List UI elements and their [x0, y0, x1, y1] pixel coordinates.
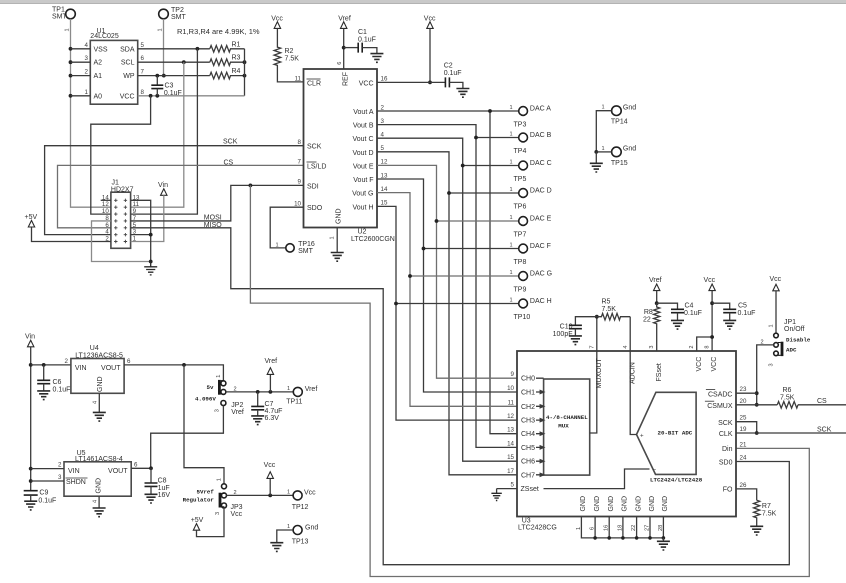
mux input stubs — [536, 378, 544, 476]
wire SCL row — [138, 60, 210, 64]
svg-text:24: 24 — [740, 455, 747, 462]
svg-text:GND: GND — [335, 208, 342, 224]
svg-text:Disable: Disable — [786, 337, 811, 344]
svg-text:2: 2 — [689, 345, 695, 348]
svg-text:R4: R4 — [232, 68, 241, 75]
svg-text:R3: R3 — [232, 55, 241, 62]
jumper JP2 Vref — [195, 375, 244, 416]
svg-text:Vout H: Vout H — [352, 204, 373, 211]
svg-text:Vcc: Vcc — [770, 276, 782, 283]
test point TP2 (SMT) — [157, 7, 186, 32]
power Vin (regulator section) — [25, 334, 35, 347]
svg-text:Regulator: Regulator — [183, 497, 215, 504]
svg-text:DAC H: DAC H — [530, 298, 552, 305]
net SCK (J1.4 to U2.SCK) — [45, 139, 304, 235]
wire MOSI branch to U3.Din — [250, 185, 809, 576]
svg-text:6: 6 — [134, 461, 138, 468]
svg-text:1: 1 — [64, 28, 70, 31]
svg-text:1: 1 — [157, 28, 163, 31]
svg-text:26: 26 — [740, 482, 747, 489]
test point TP5 DAC C — [510, 160, 552, 183]
svg-text:R8: R8 — [644, 309, 653, 316]
svg-text:DAC A: DAC A — [530, 106, 551, 113]
svg-text:6: 6 — [141, 55, 145, 62]
svg-text:C4: C4 — [685, 302, 694, 309]
svg-text:Vout G: Vout G — [352, 191, 373, 198]
wire MUXOUT internal — [590, 351, 597, 433]
svg-text:2: 2 — [58, 462, 62, 469]
net MISO (J1.5 to U3.SDO) — [131, 222, 790, 565]
svg-text:Vout E: Vout E — [353, 163, 374, 170]
svg-text:VOUT: VOUT — [108, 468, 128, 475]
test point TP9 DAC G — [510, 270, 553, 293]
IC U4 LT1236ACS8-5 — [71, 345, 124, 393]
net Vout H to TP10 and U3.CH3 — [377, 206, 519, 420]
svg-text:15: 15 — [381, 200, 388, 207]
svg-text:TP11: TP11 — [286, 398, 302, 405]
svg-text:WP: WP — [123, 73, 135, 80]
svg-text:CH1: CH1 — [521, 390, 535, 397]
svg-text:CH7: CH7 — [521, 472, 535, 479]
wire Vcc column to U2 VCC line — [428, 28, 432, 84]
svg-text:CS: CS — [817, 398, 827, 405]
svg-text:Vref: Vref — [231, 409, 244, 416]
svg-text:SDI: SDI — [307, 183, 319, 190]
svg-text:R5: R5 — [602, 299, 611, 306]
svg-text:SDA: SDA — [120, 46, 135, 53]
svg-text:0.1uF: 0.1uF — [444, 70, 462, 77]
wire Vcc to U3 VCC pins — [697, 291, 714, 351]
svg-text:Vin: Vin — [158, 182, 168, 189]
wire U5 VIN stub — [31, 462, 64, 469]
ground at J1 — [144, 262, 157, 275]
test point TP7 DAC E — [510, 215, 552, 238]
test point TP10 DAC H — [510, 298, 552, 321]
svg-text:11: 11 — [508, 399, 515, 406]
test point TP16 SMT — [270, 207, 315, 255]
svg-text:Vout B: Vout B — [353, 123, 374, 130]
svg-text:–: – — [653, 466, 657, 473]
wire U4 VIN row — [31, 358, 71, 367]
svg-text:TP5: TP5 — [514, 176, 527, 183]
ground at U2 GND — [331, 253, 344, 262]
svg-text:TP13: TP13 — [292, 539, 309, 546]
test point TP14 Gnd — [602, 105, 637, 126]
svg-text:R7: R7 — [762, 503, 771, 510]
svg-text:7.5K: 7.5K — [602, 306, 617, 313]
svg-text:CH5: CH5 — [521, 445, 535, 452]
svg-text:20-BIT ADC: 20-BIT ADC — [658, 430, 693, 437]
net Vout A to TP3 and U3.CH4 — [377, 109, 519, 434]
test point TP3 DAC A — [510, 105, 552, 128]
svg-text:C3: C3 — [165, 83, 174, 90]
svg-text:ZSset: ZSset — [521, 486, 539, 493]
jumper JP1 On/Off — [761, 291, 811, 367]
power +5V — [25, 214, 38, 227]
svg-text:SCK: SCK — [223, 139, 238, 146]
svg-text:LT1236ACS8-5: LT1236ACS8-5 — [75, 352, 123, 359]
resistor R5 7.5K — [597, 299, 630, 321]
svg-text:3: 3 — [215, 512, 221, 515]
svg-text:A1: A1 — [94, 73, 103, 80]
svg-text:SMT: SMT — [171, 14, 187, 21]
power Vcc above JP1 — [770, 276, 782, 291]
svg-text:1: 1 — [510, 187, 513, 193]
jumper JP3 Vcc — [183, 478, 243, 518]
IC U5 LT1461ACS8-4 — [64, 450, 131, 496]
svg-text:18: 18 — [617, 525, 623, 531]
net Vout B to TP4 and U3.CH5 — [377, 125, 519, 448]
svg-text:FO: FO — [723, 487, 733, 494]
svg-text:SCL: SCL — [121, 60, 135, 67]
ground at C5 — [723, 320, 736, 329]
resistor R8 22 — [643, 303, 660, 330]
ground at U4 — [93, 412, 106, 421]
resistor R3 — [210, 55, 247, 66]
svg-text:13: 13 — [507, 427, 514, 434]
power Vcc at JP3 — [264, 462, 276, 495]
svg-text:4: 4 — [381, 132, 385, 139]
svg-text:VIN: VIN — [68, 468, 80, 475]
svg-text:VIN: VIN — [75, 365, 87, 372]
power Vref at JP2 — [265, 358, 278, 392]
svg-text:GND: GND — [97, 376, 104, 392]
svg-text:CH3: CH3 — [521, 418, 535, 425]
capacitor C5 0.1uF — [712, 302, 755, 320]
svg-text:Vout D: Vout D — [352, 150, 373, 157]
wire TP14 to ground — [594, 111, 611, 154]
wire TP13 to ground — [277, 530, 293, 543]
svg-text:1: 1 — [768, 324, 774, 327]
resistor R7 7.5K — [754, 500, 777, 526]
power Vref above U2 — [338, 16, 351, 29]
svg-text:REF: REF — [343, 72, 350, 86]
connector J1 HD2X7 — [111, 180, 134, 249]
wire Vin column — [29, 347, 33, 491]
svg-text:C1: C1 — [358, 29, 367, 36]
svg-text:3: 3 — [214, 409, 220, 412]
svg-text:1: 1 — [330, 236, 336, 239]
svg-text:MUX: MUX — [558, 422, 569, 429]
svg-text:9: 9 — [298, 179, 302, 186]
wire +5V to JP3 pin 3 — [197, 508, 225, 537]
svg-text:1: 1 — [287, 489, 290, 495]
svg-text:U3: U3 — [522, 517, 531, 524]
node A0 junction — [69, 94, 73, 98]
adc block inside U3 — [637, 392, 703, 483]
ground at TP15 — [590, 152, 603, 172]
test point TP13 Gnd — [287, 524, 318, 546]
node A1 junction — [69, 74, 73, 78]
svg-text:GND: GND — [635, 496, 642, 512]
svg-text:17: 17 — [507, 468, 514, 475]
svg-text:VCC: VCC — [359, 80, 374, 87]
svg-text:TP1: TP1 — [52, 7, 65, 14]
svg-text:R1,R3,R4 are 4.99K, 1%: R1,R3,R4 are 4.99K, 1% — [177, 27, 260, 36]
svg-text:+5V: +5V — [25, 214, 38, 221]
svg-text:GND: GND — [622, 496, 629, 512]
ground at C1 — [370, 54, 383, 63]
wire U3 CSADC pin 23 — [736, 392, 757, 394]
svg-text:3: 3 — [769, 363, 775, 366]
wire ADCIN pin 4 column — [629, 317, 631, 351]
wire U3 FO pin 26 to R7 — [736, 489, 757, 500]
test point TP6 DAC D — [510, 187, 552, 210]
wire MUXOUT pin 7 to R5 — [595, 315, 599, 351]
svg-text:SMT: SMT — [52, 14, 68, 21]
svg-text:JP1: JP1 — [784, 319, 796, 326]
svg-text:5v: 5v — [207, 384, 214, 391]
svg-text:C7: C7 — [265, 401, 274, 408]
svg-text:5: 5 — [381, 145, 385, 152]
net CS to edge — [798, 398, 846, 405]
svg-text:1: 1 — [510, 132, 513, 138]
svg-text:FSset: FSset — [656, 363, 663, 381]
resistor R2 7.5K — [274, 28, 303, 82]
net CS (J1.6 to U2.LS/LD) — [58, 159, 304, 227]
svg-text:TP4: TP4 — [514, 148, 527, 155]
capacitor C2 0.1uF — [444, 63, 463, 89]
svg-text:3: 3 — [85, 55, 89, 62]
wire U3 CSMUX pin 20 to R6 — [736, 404, 777, 406]
ground at C10 — [569, 336, 582, 345]
ground at ZSset — [491, 489, 501, 501]
svg-text:Gnd: Gnd — [305, 524, 318, 531]
svg-text:6: 6 — [590, 527, 596, 530]
svg-text:3: 3 — [649, 345, 655, 348]
svg-text:14: 14 — [507, 440, 514, 447]
svg-text:C6: C6 — [53, 379, 62, 386]
svg-text:Vcc: Vcc — [231, 511, 243, 518]
svg-text:TP10: TP10 — [514, 314, 531, 321]
svg-text:CH6: CH6 — [521, 459, 535, 466]
svg-text:9: 9 — [511, 371, 515, 378]
capacitor C7 4.7uF 6.3V — [251, 392, 282, 422]
svg-text:2: 2 — [381, 104, 385, 111]
svg-text:GND: GND — [580, 496, 587, 512]
svg-text:Din: Din — [722, 446, 733, 453]
IC U2 LTC2600CGN — [294, 62, 395, 243]
svg-text:R1: R1 — [232, 41, 241, 48]
svg-text:23: 23 — [740, 386, 747, 393]
svg-text:DAC G: DAC G — [530, 271, 552, 278]
svg-text:22: 22 — [631, 525, 637, 531]
svg-text:TP7: TP7 — [514, 231, 527, 238]
svg-text:6: 6 — [337, 62, 343, 65]
IC U3 LTC2428CG — [507, 345, 747, 531]
ground at C8 — [145, 494, 158, 503]
svg-text:4: 4 — [85, 42, 89, 49]
wire U2 GND pin — [336, 228, 338, 253]
svg-text:0.1uF: 0.1uF — [53, 387, 71, 394]
svg-text:7: 7 — [141, 69, 145, 76]
wire FSset pin 3 column — [656, 330, 658, 351]
svg-text:CH4: CH4 — [521, 431, 535, 438]
wire ZSset external stub — [497, 488, 517, 490]
svg-text:VCC: VCC — [696, 357, 703, 372]
ground at U3 GND bus — [657, 538, 670, 550]
svg-text:25: 25 — [740, 415, 747, 422]
svg-text:Vref: Vref — [338, 16, 351, 23]
svg-text:4-/8-CHANNEL: 4-/8-CHANNEL — [546, 414, 588, 421]
svg-text:1: 1 — [510, 298, 513, 304]
capacitor C10 100pF — [553, 317, 597, 338]
svg-text:4: 4 — [623, 345, 629, 348]
svg-text:2: 2 — [65, 358, 69, 365]
test point TP12 Vcc — [287, 489, 316, 511]
ground at TP13 — [270, 543, 283, 552]
svg-text:12: 12 — [381, 159, 388, 166]
wire U4 VOUT row to JP2 pin 1 — [124, 358, 223, 381]
svg-text:CH2: CH2 — [521, 404, 535, 411]
svg-text:ADC: ADC — [786, 346, 797, 353]
svg-text:19: 19 — [740, 426, 747, 433]
wire U5 GND pin — [93, 496, 100, 508]
svg-text:3: 3 — [58, 474, 62, 481]
test point TP8 DAC F — [510, 243, 551, 266]
svg-text:Vcc: Vcc — [304, 490, 316, 497]
svg-text:100pF: 100pF — [553, 331, 573, 338]
wire JP2 pin 2 row to TP11 — [226, 390, 293, 394]
wire JP2 pin 3 to U5 VOUT — [151, 406, 224, 469]
capacitor C1 0.1uF — [344, 29, 377, 54]
svg-text:2: 2 — [85, 69, 89, 76]
svg-text:7: 7 — [298, 159, 302, 166]
svg-text:GND: GND — [96, 478, 103, 494]
svg-text:DAC E: DAC E — [530, 216, 552, 223]
wire 5V feed to JP3 pin 1 — [184, 365, 224, 484]
ground at C2 — [456, 89, 469, 98]
wire U5 VOUT row — [131, 461, 153, 470]
wire TP2 to WP line — [162, 19, 166, 78]
resistor R6 7.5K — [777, 387, 798, 408]
net Vout G to TP9 and U3.CH2 — [377, 193, 519, 407]
svg-text:5Vref: 5Vref — [197, 489, 215, 496]
wire U1 pin3 A2 stub — [71, 61, 91, 63]
svg-text:4.7uF: 4.7uF — [265, 408, 283, 415]
power Vcc above R2 — [271, 16, 283, 29]
wire JP1 pin 2 to CSADC/CSMUX — [755, 345, 774, 407]
svg-text:0.1uF: 0.1uF — [38, 497, 56, 504]
svg-text:16V: 16V — [158, 492, 171, 499]
power Vref above R8 — [649, 277, 662, 305]
net Vout D to TP6 and U3.CH7 — [377, 152, 519, 475]
svg-text:Vcc: Vcc — [704, 277, 716, 284]
svg-text:0.1uF: 0.1uF — [684, 310, 702, 317]
svg-text:1: 1 — [287, 524, 290, 530]
wire J1 pin 14 stub — [101, 199, 111, 201]
svg-text:Vref: Vref — [265, 358, 278, 365]
svg-text:10: 10 — [507, 385, 514, 392]
svg-text:1: 1 — [510, 270, 513, 276]
ground at C9 — [24, 501, 37, 510]
svg-text:On/Off: On/Off — [784, 326, 805, 333]
svg-text:HD2X7: HD2X7 — [111, 186, 134, 193]
resistor R4 — [210, 68, 247, 79]
svg-text:DAC F: DAC F — [530, 243, 551, 250]
svg-text:CSADC: CSADC — [708, 391, 733, 398]
note R1,R3,R4 values — [177, 27, 260, 36]
wire pullup column to VCC — [244, 49, 246, 96]
svg-text:Vcc: Vcc — [264, 462, 276, 469]
svg-text:TP9: TP9 — [514, 286, 527, 293]
svg-text:Vref: Vref — [305, 386, 318, 393]
svg-text:1: 1 — [602, 105, 605, 111]
wire JP3 pin 2 row to TP12 — [227, 494, 294, 498]
svg-text:A0: A0 — [94, 93, 103, 100]
svg-text:U4: U4 — [90, 345, 99, 352]
svg-text:CLK: CLK — [719, 431, 733, 438]
wire J1 pin 13 to ground column — [131, 200, 151, 261]
svg-text:20: 20 — [740, 398, 747, 405]
svg-text:GND: GND — [662, 496, 669, 512]
svg-text:LTC2424/LTC2428: LTC2424/LTC2428 — [650, 477, 703, 484]
J1 pin contacts — [114, 199, 127, 244]
wire WP row — [138, 74, 210, 78]
svg-text:1: 1 — [85, 89, 89, 96]
svg-text:4.096V: 4.096V — [195, 396, 216, 403]
svg-text:LS/LD: LS/LD — [307, 163, 326, 170]
resistor R1 — [210, 41, 245, 52]
svg-text:1: 1 — [217, 478, 223, 481]
svg-text:1: 1 — [602, 146, 605, 152]
wire ZSset internal to ADC minus — [544, 469, 650, 489]
wire U2 VCC pin 16 row — [377, 81, 445, 83]
svg-text:Vout A: Vout A — [353, 109, 374, 116]
wire U4 GND pin — [93, 393, 100, 412]
power Vcc above C2 — [424, 16, 436, 29]
power Vcc above U3 — [704, 277, 716, 291]
svg-text:SDO: SDO — [307, 205, 323, 212]
svg-text:5: 5 — [511, 482, 515, 489]
svg-text:3: 3 — [381, 118, 385, 125]
capacitor C9 0.1uF — [24, 489, 57, 504]
svg-text:22: 22 — [643, 316, 651, 323]
wire U1 pin4 VSS stub — [71, 48, 91, 50]
svg-text:C8: C8 — [158, 478, 167, 485]
net Vout C to TP5 and U3.CH6 — [377, 138, 519, 461]
svg-text:24LC025: 24LC025 — [90, 33, 119, 40]
test point TP15 Gnd — [596, 146, 636, 167]
svg-text:LTC2600CGN: LTC2600CGN — [351, 236, 395, 243]
svg-text:4: 4 — [93, 500, 99, 503]
svg-text:4: 4 — [93, 401, 99, 404]
svg-text:7.5K: 7.5K — [762, 511, 777, 518]
svg-text:21: 21 — [740, 441, 747, 448]
U3 GND pins and bus — [576, 496, 669, 540]
svg-text:1: 1 — [510, 243, 513, 249]
svg-text:6.3V: 6.3V — [265, 415, 280, 422]
wire U1 VCC down to J1 pin 10 — [91, 96, 151, 214]
J1 pin numbers — [102, 194, 140, 242]
capacitor C6 0.1uF — [37, 365, 70, 394]
wire U3 SCK pin 25 to CLK — [736, 422, 759, 435]
svg-text:DAC B: DAC B — [530, 132, 552, 139]
svg-text:1: 1 — [510, 105, 513, 111]
svg-text:0.1uF: 0.1uF — [738, 310, 756, 317]
power Vin at J1 — [158, 182, 168, 196]
svg-text:VOUT: VOUT — [101, 365, 121, 372]
wire SCL column to J1 pin 11 — [131, 62, 184, 207]
svg-text:0.1uF: 0.1uF — [164, 90, 182, 97]
svg-text:SMT: SMT — [298, 248, 314, 255]
svg-text:JP2: JP2 — [231, 402, 243, 409]
wire J1 pin 8 ground loop — [92, 221, 153, 263]
svg-text:GND: GND — [608, 496, 615, 512]
node VSS junction — [69, 47, 73, 51]
svg-text:Gnd: Gnd — [623, 146, 636, 153]
svg-text:12: 12 — [507, 413, 514, 420]
